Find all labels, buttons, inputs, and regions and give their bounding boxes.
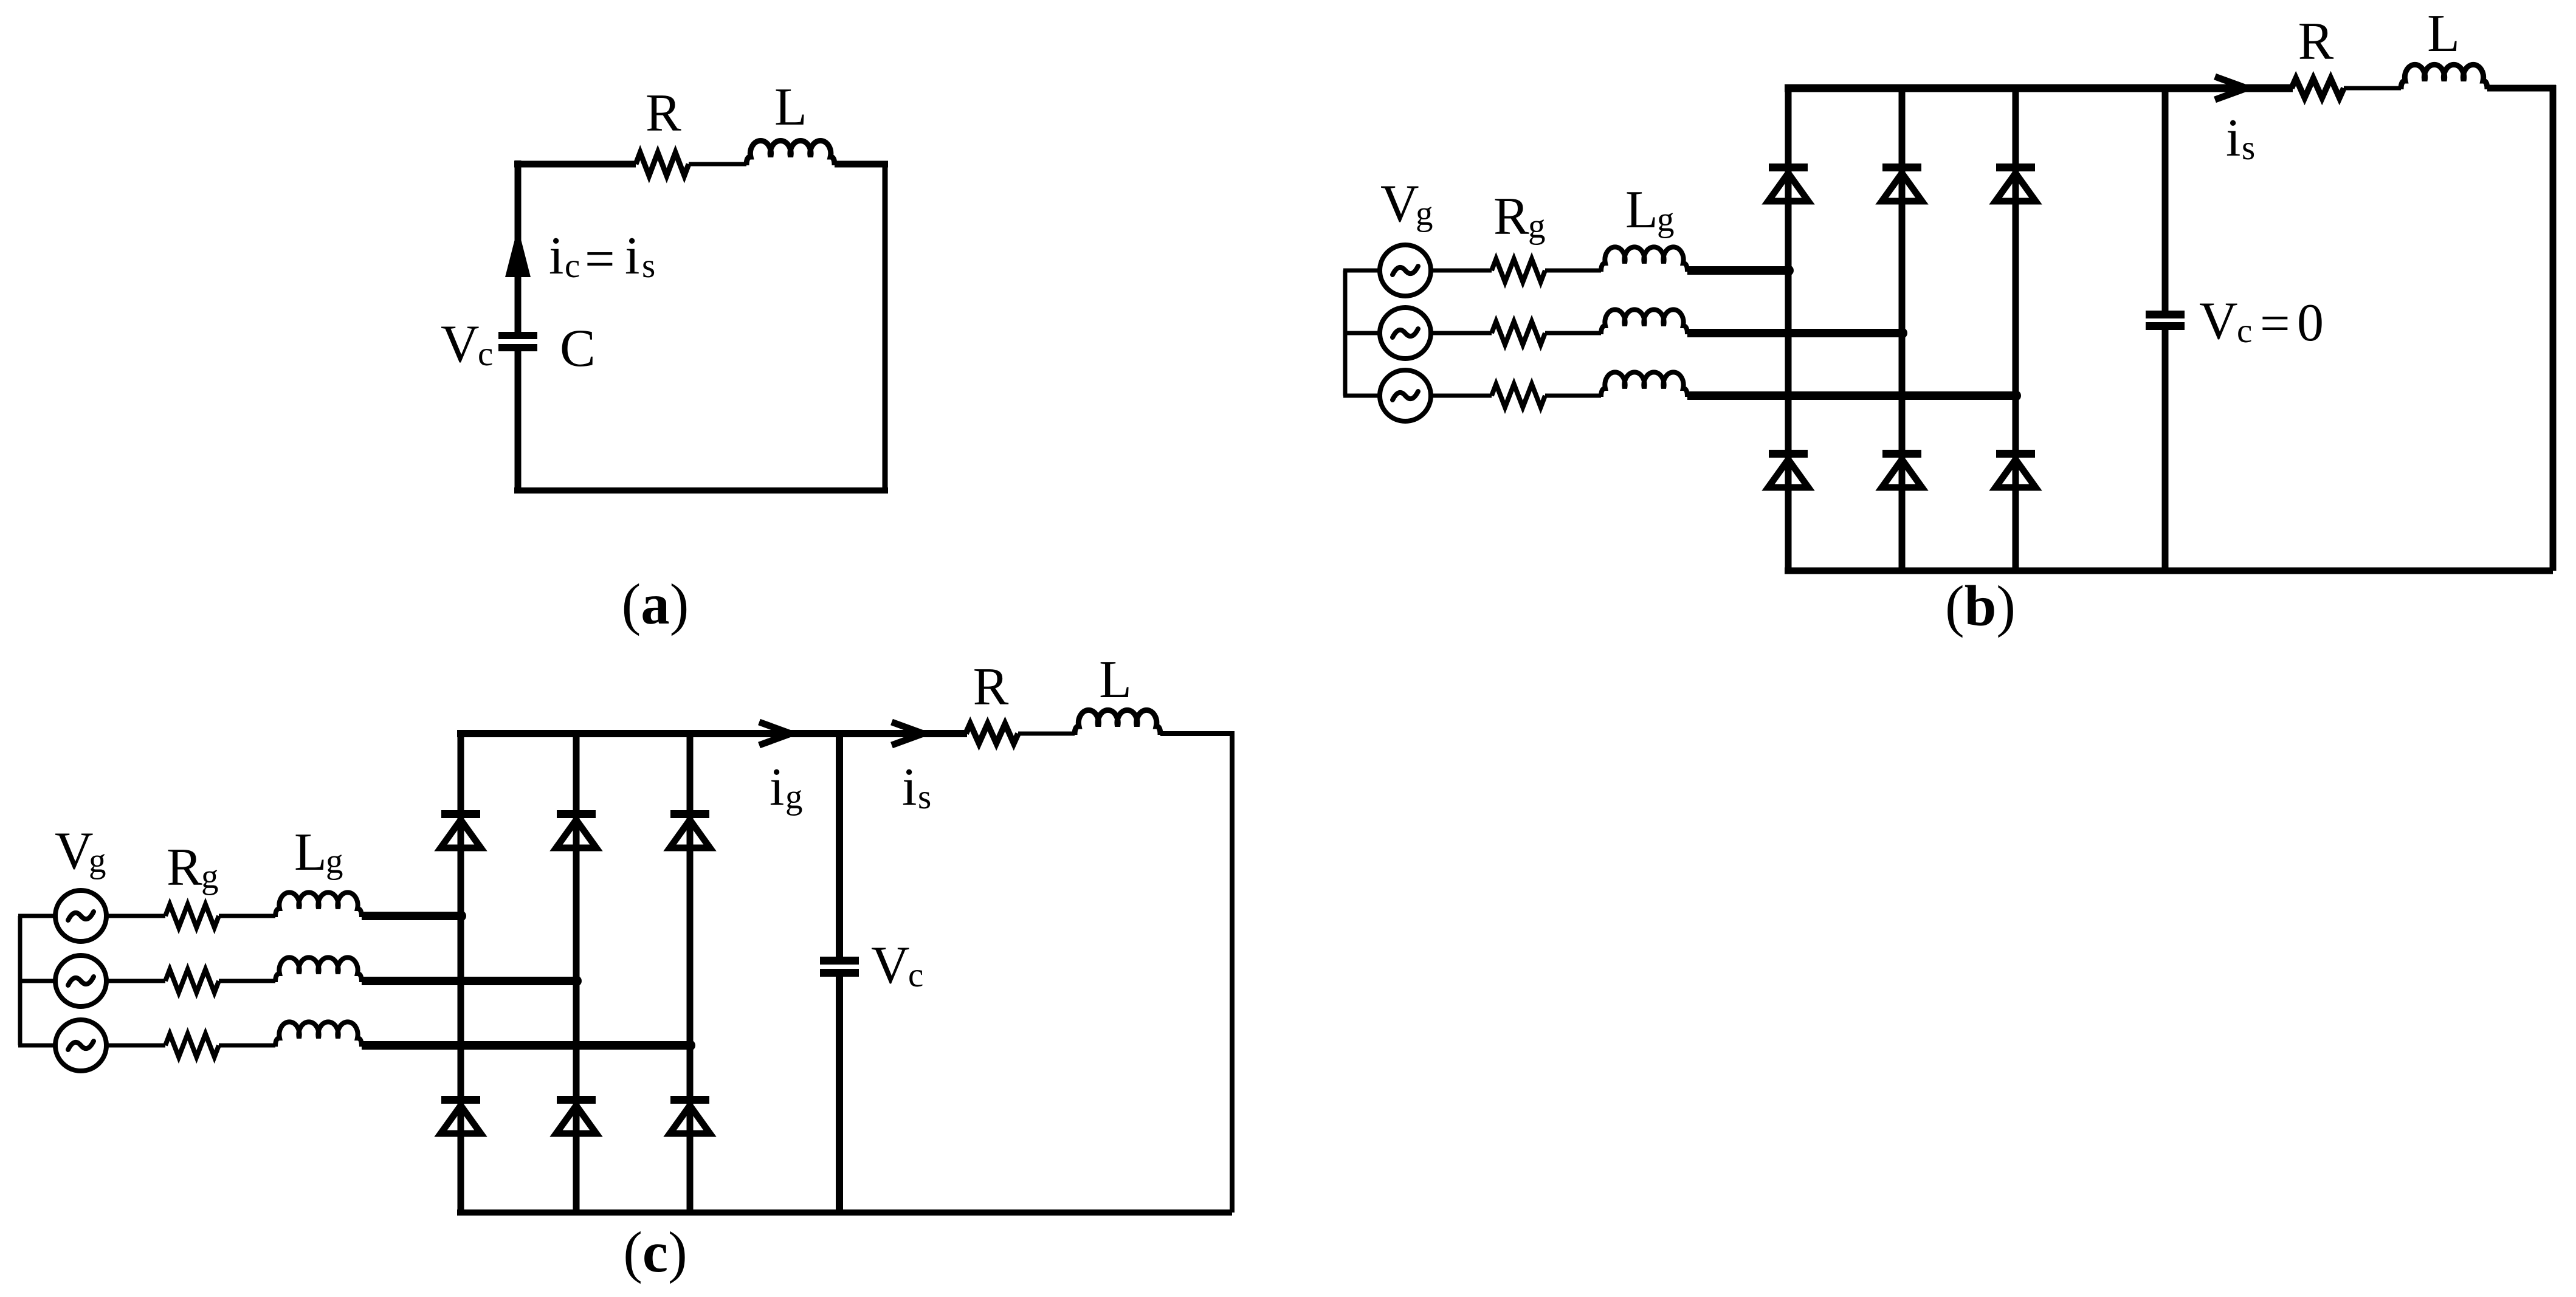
svg-text:i: i xyxy=(625,227,639,286)
svg-text:i: i xyxy=(770,758,784,817)
wire (a) bottom xyxy=(514,487,888,494)
diode D1 (b) upper leg1 xyxy=(1769,163,1808,171)
wire (b) top-right segment xyxy=(2487,85,2556,92)
wire (c) phase1 source-to-Rg xyxy=(106,914,165,918)
wire (c) phase3 Rg-to-Lg xyxy=(219,1044,275,1048)
inductor Lg phase3 (c) xyxy=(275,1022,362,1047)
resistor R (c) xyxy=(966,724,1018,743)
wire (b) phase2 source-to-Rg xyxy=(1431,331,1492,335)
svg-text:(c): (c) xyxy=(623,1220,687,1284)
resistor Rg phase2 (b) xyxy=(1492,322,1545,345)
capacitor Vc (c) xyxy=(820,957,859,965)
junction phase2-leg2 (c) xyxy=(571,975,582,986)
wire (b) right side xyxy=(2550,85,2557,571)
wire (c) capacitor leg lower xyxy=(836,977,843,1213)
wire (a) left upper segment xyxy=(515,160,522,332)
svg-text:g: g xyxy=(1528,207,1546,246)
wire (b) phase3 source-to-Rg xyxy=(1431,394,1492,398)
svg-text:=: = xyxy=(2260,294,2290,353)
junction phase3-leg3 (b) xyxy=(2010,390,2021,401)
bridge leg 3 (c) xyxy=(687,734,694,1213)
inductor Lg phase2 (b) xyxy=(1601,309,1687,334)
source Vg phase3 (c) xyxy=(55,1020,106,1071)
resistor Rg phase1 (c) xyxy=(165,904,219,927)
svg-text:V: V xyxy=(2199,292,2238,351)
svg-text:(a): (a) xyxy=(622,572,689,636)
svg-text:L: L xyxy=(774,78,807,137)
svg-text:L: L xyxy=(1625,181,1658,239)
svg-text:g: g xyxy=(89,842,106,880)
wire (b) neutral bus xyxy=(1343,270,1348,396)
bridge leg 1 (c) xyxy=(458,734,464,1213)
svg-text:V: V xyxy=(871,936,910,995)
svg-text:c: c xyxy=(478,335,493,373)
source Vg phase2 (b) xyxy=(1380,308,1431,359)
svg-text:i: i xyxy=(2226,109,2240,168)
wire (c) stub phase1 xyxy=(18,914,55,918)
svg-text:i: i xyxy=(549,227,563,286)
svg-text:c: c xyxy=(565,247,580,285)
svg-text:g: g xyxy=(326,842,343,881)
wire (c) phase2 source-to-Rg xyxy=(106,979,165,983)
wire (b) capacitor leg lower xyxy=(2162,330,2169,571)
wire (c) right side xyxy=(1230,731,1235,1213)
resistor Rg phase1 (b) xyxy=(1492,259,1545,282)
wire (b) stub phase1 xyxy=(1343,269,1380,273)
wire (c) stub phase3 xyxy=(18,1044,55,1048)
diode D5 (b) upper leg3 xyxy=(1996,163,2035,171)
svg-text:V: V xyxy=(55,822,94,881)
wire (c) bottom bus xyxy=(457,1209,1232,1216)
wire (b) phase1 Lg-to-bridge xyxy=(1687,266,1788,275)
diode D3 (c) upper leg2 xyxy=(557,810,596,818)
svg-text:i: i xyxy=(902,758,917,817)
diode D1 (c) upper leg1 xyxy=(441,810,480,818)
wire (b) phase3 Lg-to-bridge xyxy=(1687,391,2016,400)
junction phase1-leg1 (b) xyxy=(1783,265,1794,276)
inductor L (c) xyxy=(1075,710,1160,735)
wire (c) phase1 Lg-to-bridge xyxy=(362,912,461,920)
diode D2 (b) lower leg3 xyxy=(1996,450,2035,458)
inductor L (a) xyxy=(746,140,835,165)
wire (c) phase1 Rg-to-Lg xyxy=(219,914,275,918)
arrow i_c (a) current arrow xyxy=(505,227,531,277)
diode D3 (b) upper leg2 xyxy=(1882,163,1921,171)
wire (c) top bus xyxy=(457,730,967,737)
diode D6 (c) lower leg2 xyxy=(557,1096,596,1104)
junction phase1-leg1 (c) xyxy=(455,910,466,921)
wire (b) phase1 source-to-Rg xyxy=(1431,269,1492,273)
wire (c) phase2 Lg-to-bridge xyxy=(362,977,576,985)
wire (a) right side xyxy=(883,161,888,490)
svg-text:V: V xyxy=(1380,174,1419,233)
resistor Rg phase3 (b) xyxy=(1492,384,1545,407)
wire (c) neutral bus xyxy=(18,916,22,1045)
wire (b) phase3 Rg-to-Lg xyxy=(1545,394,1601,398)
svg-text:g: g xyxy=(785,778,803,816)
wire (c) top-right segment xyxy=(1160,731,1235,736)
svg-text:L: L xyxy=(294,823,327,882)
svg-text:R: R xyxy=(1493,187,1529,246)
svg-text:R: R xyxy=(973,658,1009,717)
diode D6 (b) lower leg2 xyxy=(1882,450,1921,458)
wire (c) phase2 Rg-to-Lg xyxy=(219,979,275,983)
wire (b) phase2 Lg-to-bridge xyxy=(1687,329,1902,337)
svg-text:R: R xyxy=(167,838,202,897)
wire (a) top-left segment xyxy=(514,161,636,168)
diode D4 (c) lower leg1 xyxy=(441,1096,480,1104)
diode D2 (c) lower leg3 xyxy=(670,1096,709,1104)
wire (b) stub phase3 xyxy=(1343,394,1380,398)
svg-text:C: C xyxy=(560,319,596,378)
wire (a) resistor-to-inductor xyxy=(689,162,746,167)
source Vg phase2 (c) xyxy=(55,955,106,1006)
svg-text:s: s xyxy=(2242,129,2255,167)
bridge leg 3 (b) xyxy=(2013,88,2019,571)
wire (b) top bus xyxy=(1785,84,2293,92)
svg-text:L: L xyxy=(1099,650,1132,709)
wire (c) stub phase2 xyxy=(18,979,55,983)
svg-text:c: c xyxy=(908,956,923,994)
diode D4 (b) lower leg1 xyxy=(1769,450,1808,458)
resistor Rg phase3 (c) xyxy=(165,1034,219,1057)
source Vg phase1 (c) xyxy=(55,890,106,941)
svg-text:c: c xyxy=(2237,312,2252,350)
wire (c) phase3 source-to-Rg xyxy=(106,1044,165,1048)
inductor L (b) xyxy=(2401,64,2487,89)
svg-text:0: 0 xyxy=(2297,294,2324,353)
resistor R (b) xyxy=(2292,78,2344,98)
wire (b) phase2 Rg-to-Lg xyxy=(1545,331,1601,335)
svg-text:V: V xyxy=(441,315,480,374)
wire (b) phase1 Rg-to-Lg xyxy=(1545,269,1601,273)
wire (a) top-right segment xyxy=(835,161,888,168)
svg-text:(b): (b) xyxy=(1945,574,2016,638)
wire (b) R-to-L xyxy=(2344,86,2401,91)
bridge leg 2 (c) xyxy=(573,734,580,1213)
wire (b) stub phase2 xyxy=(1343,331,1380,335)
wire (c) phase3 Lg-to-bridge xyxy=(362,1041,690,1050)
arrow i_s (c) xyxy=(892,722,923,745)
diode D5 (c) upper leg3 xyxy=(670,810,709,818)
source Vg phase1 (b) xyxy=(1380,245,1431,296)
junction phase2-leg2 (b) xyxy=(1896,328,1907,339)
inductor Lg phase3 (b) xyxy=(1601,372,1687,397)
capacitor Vc (b) xyxy=(2146,311,2185,318)
svg-text:R: R xyxy=(2298,12,2334,71)
wire (c) capacitor leg upper xyxy=(836,734,843,957)
wire (b) bottom bus xyxy=(1785,568,2553,574)
inductor Lg phase1 (c) xyxy=(275,892,362,917)
svg-text:g: g xyxy=(201,858,219,896)
wire (b) capacitor leg upper xyxy=(2162,88,2169,311)
inductor Lg phase2 (c) xyxy=(275,957,362,982)
bridge leg 1 (b) xyxy=(1785,88,1792,571)
arrow i_g (c) xyxy=(759,722,791,745)
svg-text:g: g xyxy=(1657,201,1675,239)
wire (c) R-to-L xyxy=(1018,732,1075,736)
wire (a) left lower segment xyxy=(515,351,522,494)
bridge leg 2 (b) xyxy=(1899,88,1906,571)
junction phase3-leg3 (c) xyxy=(684,1040,695,1051)
svg-text:s: s xyxy=(918,778,931,816)
capacitor C (a) xyxy=(498,332,537,339)
source Vg phase3 (b) xyxy=(1380,370,1431,421)
resistor Rg phase2 (c) xyxy=(165,969,219,993)
svg-text:s: s xyxy=(642,247,655,285)
arrow i_s (b) xyxy=(2215,77,2247,100)
inductor Lg phase1 (b) xyxy=(1601,247,1687,272)
svg-text:g: g xyxy=(1416,194,1433,233)
resistor R (a) xyxy=(636,153,689,176)
svg-text:L: L xyxy=(2427,4,2460,63)
svg-text:=: = xyxy=(585,230,615,289)
svg-text:R: R xyxy=(646,84,681,143)
